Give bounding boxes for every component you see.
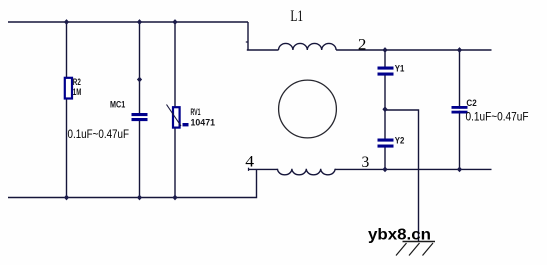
junction node 3 — [382, 167, 387, 173]
junction bottom rail 2 — [137, 195, 142, 201]
capacitor Y1 — [378, 67, 394, 76]
wire top rail R — [336, 49, 491, 51]
wire Y mid branch — [385, 110, 419, 242]
svg-text:RV1: RV1 — [191, 107, 201, 118]
svg-text:C2: C2 — [466, 98, 476, 109]
wire bottom rail R — [335, 168, 491, 170]
svg-text:4: 4 — [245, 153, 254, 170]
capacitor MC1 — [132, 113, 148, 121]
svg-text:0.1uF~0.47uF: 0.1uF~0.47uF — [68, 127, 130, 141]
svg-text:Y2: Y2 — [395, 136, 405, 147]
pin tick L1 pin1 — [246, 41, 249, 43]
junction top rail 2 — [137, 19, 142, 25]
svg-text:2: 2 — [358, 37, 367, 54]
svg-text:10471: 10471 — [191, 118, 216, 129]
svg-text:1M: 1M — [73, 87, 82, 98]
motor circle — [279, 80, 337, 138]
svg-text:ybx8.cn: ybx8.cn — [368, 226, 431, 243]
resistor R2 — [65, 78, 72, 99]
svg-text:3: 3 — [362, 154, 370, 171]
junction top rail 1 — [64, 19, 69, 25]
svg-text:MC1: MC1 — [110, 99, 126, 110]
junction bottom rail 1 — [64, 195, 69, 201]
wire corner top to L1 — [247, 22, 279, 50]
junction bottom rail 3 — [172, 195, 177, 201]
wire C2 vertical — [459, 50, 461, 169]
wire Y vertical — [384, 50, 386, 169]
pin tick L1 pin4 — [248, 168, 250, 171]
junction node 2 — [382, 47, 387, 53]
wire left vertical 2 — [139, 22, 141, 198]
junction C2 top — [457, 47, 462, 53]
wire L1 bottom lead — [249, 168, 278, 170]
wire top rail L — [8, 21, 248, 23]
capacitor C2 — [452, 106, 468, 114]
junction Y mid — [382, 106, 387, 112]
wire left vertical 3 — [174, 22, 176, 198]
wire left vertical 1 — [66, 22, 68, 198]
svg-text:0.1uF~0.47uF: 0.1uF~0.47uF — [466, 110, 529, 124]
junction top rail 3 — [172, 19, 177, 25]
junction MC1 branch — [137, 77, 142, 83]
capacitor Y2 — [378, 139, 394, 148]
inductor L1 bottom winding — [278, 169, 336, 175]
inductor L1 top winding — [279, 43, 337, 50]
svg-text:L1: L1 — [290, 8, 303, 25]
junction C2 bottom — [457, 167, 462, 173]
varistor RV1 — [167, 105, 189, 128]
svg-text:Y1: Y1 — [395, 64, 405, 75]
wire bottom rail L — [8, 169, 257, 197]
ground — [396, 242, 435, 256]
